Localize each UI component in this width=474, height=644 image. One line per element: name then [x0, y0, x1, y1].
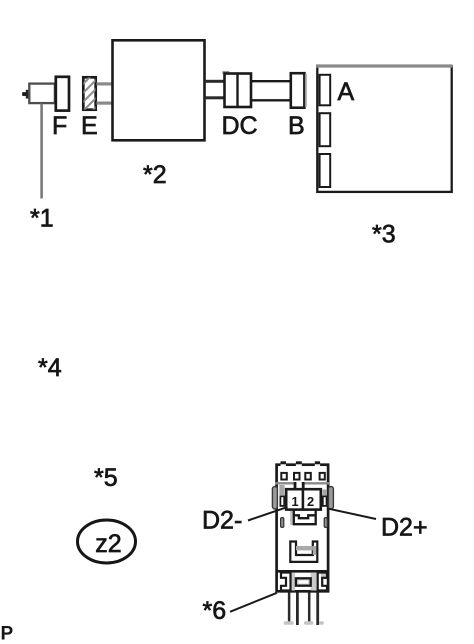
svg-text:*4: *4: [38, 354, 62, 382]
svg-text:A: A: [338, 78, 355, 106]
terminal cavity box: [286, 488, 321, 510]
sensor body (*1 part): [29, 84, 55, 104]
bar bottom *2 to DC: [205, 96, 225, 99]
gasket E (hatched): [79, 66, 101, 124]
circled z2 marker: [78, 520, 136, 563]
side tab left: [280, 496, 284, 506]
exhaust manifold *3: [316, 66, 453, 192]
side tab right: [323, 496, 327, 506]
top edge tab 3: [315, 461, 320, 467]
square hole 3: [305, 473, 311, 480]
wire 4: [316, 593, 319, 626]
lower bracket left: [281, 573, 291, 591]
port hole 2 in *3: [320, 113, 331, 146]
sensor wire terminal tip: [22, 90, 28, 99]
square hole 4: [320, 473, 325, 480]
svg-text:C: C: [240, 112, 258, 140]
top edge tab 2: [296, 461, 302, 467]
washer F: [56, 77, 69, 111]
stud bottom E to *2: [97, 102, 113, 105]
wire 1: [288, 593, 291, 622]
top edge tab 1: [281, 461, 287, 467]
wire 2: [296, 593, 299, 626]
wire end cap 1: [284, 621, 294, 624]
svg-text:D: D: [222, 112, 240, 140]
svg-text:P: P: [1, 623, 14, 644]
svg-text:*3: *3: [372, 221, 396, 249]
svg-text:D2+: D2+: [381, 514, 428, 542]
washer B: [291, 73, 306, 108]
connector body *6: [277, 465, 329, 592]
lower gray shading left: [291, 573, 296, 591]
lower separator line: [276, 570, 330, 573]
svg-text:D2-: D2-: [202, 507, 242, 535]
side wing right: [328, 487, 333, 510]
rod C to B: [251, 81, 290, 100]
stud top E to *2: [97, 82, 113, 85]
leader line *1: [40, 104, 43, 199]
wire 3: [308, 593, 311, 622]
side wing left: [272, 487, 277, 510]
square hole 2: [294, 473, 300, 480]
washer block D/C: [222, 71, 251, 108]
latch box with notch: [294, 510, 316, 524]
svg-text:F: F: [52, 112, 67, 140]
wire end cap 2: [304, 621, 313, 624]
U bracket: [290, 542, 317, 562]
lower bracket right: [318, 573, 327, 591]
svg-text:1: 1: [291, 494, 298, 509]
slot left: [281, 518, 284, 528]
svg-text:*2: *2: [143, 161, 167, 189]
lower gray corner right: [321, 573, 327, 579]
lower center box: [296, 578, 311, 585]
shading above right tab: [322, 490, 327, 496]
svg-text:E: E: [81, 112, 98, 140]
wire end cap 3: [319, 621, 324, 624]
leader line D2-: [248, 507, 288, 521]
port hole 3 in *3: [320, 154, 331, 187]
svg-text:B: B: [288, 112, 305, 140]
svg-text:*6: *6: [203, 597, 227, 625]
shading left of latch box: [290, 511, 293, 525]
leader line *6: [230, 593, 277, 612]
separator line below holes: [276, 482, 330, 488]
square hole 1: [281, 473, 287, 480]
lower gray shading right: [311, 573, 318, 591]
svg-text:*5: *5: [94, 464, 118, 492]
port hole 1 in *3: [320, 75, 331, 106]
svg-text:2: 2: [307, 494, 314, 509]
leader line D2+: [329, 509, 376, 519]
slot right: [324, 518, 327, 528]
svg-text:z2: z2: [95, 530, 121, 558]
bar top *2 to DC: [205, 80, 225, 83]
sensor unit *2: [113, 40, 205, 140]
shading above left tab: [279, 485, 284, 495]
svg-text:*1: *1: [30, 205, 54, 233]
